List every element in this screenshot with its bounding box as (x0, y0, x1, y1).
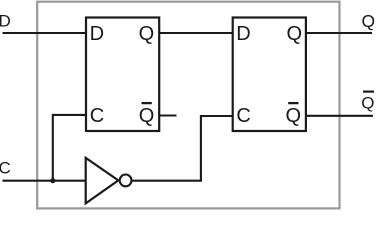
wire junction up to U1 clock (53, 115, 87, 181)
wire D input (3, 32, 88, 34)
svg-text:Q: Q (361, 93, 374, 112)
junction on C wire (50, 178, 55, 183)
overbar of U1 Qbar (142, 102, 152, 104)
wire U2 Q to output (306, 32, 372, 34)
inverter U3 triangle (86, 158, 119, 204)
svg-text:Q: Q (362, 11, 376, 31)
wire inverter output to U2 clock (132, 116, 233, 181)
svg-text:Q: Q (286, 105, 302, 127)
wire C input (3, 180, 86, 182)
svg-text:C: C (0, 159, 11, 178)
svg-text:C: C (236, 105, 250, 127)
svg-text:Q: Q (287, 23, 303, 45)
inverter U3 bubble (120, 175, 132, 187)
overbar of Qbar output label (363, 90, 374, 92)
wire U2 Qbar to output (306, 115, 373, 117)
svg-text:D: D (236, 23, 250, 45)
overbar of U2 Qbar (288, 102, 298, 104)
flip-flop U1 (86, 18, 159, 132)
enclosure boundary box (37, 2, 339, 209)
svg-text:C: C (90, 105, 104, 127)
svg-text:D: D (90, 23, 104, 45)
svg-text:Q: Q (139, 23, 155, 45)
svg-text:Q: Q (139, 105, 155, 127)
wire U1 Q to U2 D (159, 32, 233, 34)
wire U1 Qbar stub (159, 114, 176, 116)
svg-text:D: D (0, 12, 11, 31)
flip-flop U2 (233, 18, 306, 132)
